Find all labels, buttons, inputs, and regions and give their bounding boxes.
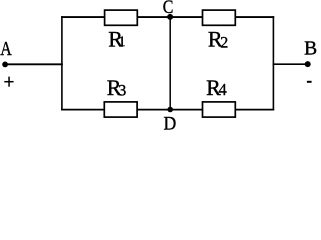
wire top left segment [61, 16, 104, 18]
wire A to left rail [5, 63, 63, 65]
wire bottom middle segment through node D [137, 109, 202, 111]
node B junction dot [305, 61, 311, 67]
wire right rail to B [273, 63, 308, 65]
svg-text:4: 4 [219, 80, 227, 99]
resistor R3 [104, 102, 137, 117]
wire bottom right segment [235, 109, 274, 111]
wire top right segment [235, 16, 274, 18]
resistor R2 [203, 10, 236, 25]
svg-text:3: 3 [118, 83, 126, 100]
wire bottom left segment [61, 109, 104, 111]
node C junction dot [167, 14, 173, 20]
resistor R4 [203, 102, 236, 117]
svg-text:1: 1 [118, 34, 126, 50]
svg-text:C: C [163, 0, 174, 18]
svg-text:B: B [304, 39, 317, 60]
node A junction dot [2, 62, 8, 68]
minus polarity marker at B [307, 81, 312, 83]
node D junction dot [167, 107, 173, 113]
plus polarity marker at A [4, 81, 13, 83]
wire node C to node D [169, 17, 171, 110]
svg-text:A: A [0, 37, 12, 59]
wire top middle segment through node C [137, 16, 202, 18]
svg-text:2: 2 [220, 34, 228, 51]
resistor R1 [105, 10, 138, 25]
wire left rail [61, 16, 63, 110]
svg-text:D: D [164, 113, 177, 134]
wire right rail [272, 16, 274, 110]
